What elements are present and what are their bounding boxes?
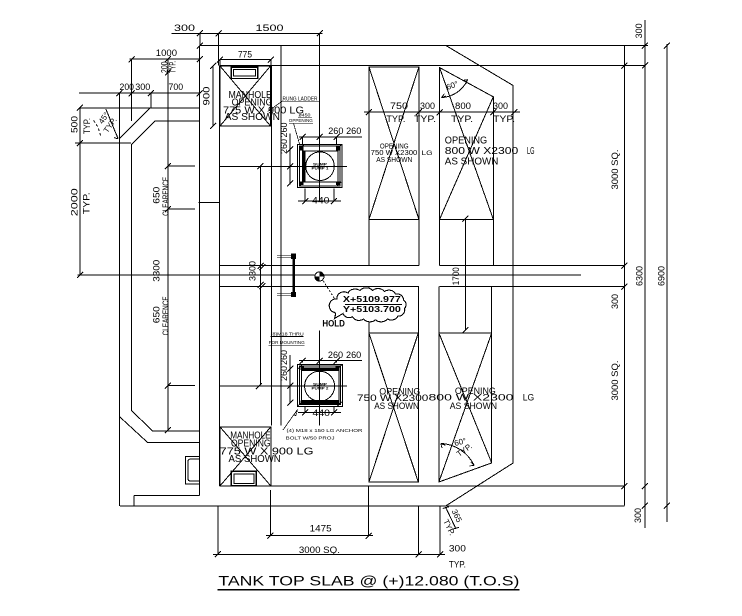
svg-text:6900: 6900 [657, 266, 668, 286]
svg-text:(8)M18 THRU: (8)M18 THRU [271, 331, 304, 336]
svg-text:3000 SQ.: 3000 SQ. [299, 545, 340, 556]
svg-text:AS SHOWN: AS SHOWN [374, 401, 419, 412]
svg-text:300: 300 [135, 82, 150, 93]
svg-text:300: 300 [174, 23, 195, 34]
svg-text:300: 300 [449, 543, 466, 554]
svg-text:1700: 1700 [451, 267, 462, 285]
svg-text:LG: LG [523, 392, 535, 403]
svg-text:300: 300 [610, 294, 621, 309]
svg-text:260: 260 [279, 139, 290, 154]
svg-text:X+5109.977: X+5109.977 [343, 295, 402, 304]
svg-text:500: 500 [69, 116, 80, 133]
svg-text:300: 300 [493, 101, 508, 112]
svg-text:700: 700 [169, 82, 184, 93]
svg-text:AS SHOWN: AS SHOWN [445, 157, 499, 168]
svg-text:HOLD: HOLD [322, 319, 345, 330]
svg-text:260: 260 [346, 350, 361, 361]
svg-text:TYP.: TYP. [81, 192, 92, 214]
svg-text:TYP.: TYP. [168, 61, 179, 73]
svg-text:3300: 3300 [152, 260, 163, 282]
svg-text:AS SHOWN: AS SHOWN [376, 157, 412, 164]
svg-text:6300: 6300 [635, 266, 646, 286]
svg-text:775: 775 [238, 49, 252, 60]
svg-text:TYP.: TYP. [414, 114, 436, 125]
svg-text:LG: LG [527, 146, 535, 157]
svg-text:260: 260 [328, 350, 343, 361]
svg-text:300: 300 [634, 23, 645, 38]
svg-text:800: 800 [455, 101, 471, 112]
svg-text:AS SHOWN: AS SHOWN [450, 401, 498, 412]
svg-text:900: 900 [202, 87, 213, 106]
svg-text:260: 260 [328, 126, 343, 137]
svg-text:TYP.: TYP. [451, 114, 473, 125]
svg-text:440: 440 [312, 195, 330, 206]
svg-text:260: 260 [279, 350, 290, 365]
svg-text:BOLT W/50 PROJ: BOLT W/50 PROJ [286, 436, 335, 441]
svg-text:PUMP 1: PUMP 1 [312, 167, 329, 171]
svg-text:Y+5103.700: Y+5103.700 [343, 305, 402, 314]
svg-text:TYP.: TYP. [493, 114, 515, 125]
svg-text:200: 200 [120, 82, 135, 93]
svg-text:750 W X2300: 750 W X2300 [371, 150, 418, 157]
svg-text:300: 300 [420, 101, 435, 112]
svg-text:260: 260 [346, 126, 361, 137]
svg-text:(4) M18 x 150 LG ANCHOR: (4) M18 x 150 LG ANCHOR [287, 428, 364, 433]
svg-text:OPENING: OPENING [445, 136, 487, 147]
svg-text:3000 SQ.: 3000 SQ. [610, 361, 621, 401]
svg-text:300: 300 [633, 508, 644, 523]
svg-text:AS SHOWN: AS SHOWN [225, 112, 280, 123]
svg-text:CLEARENCE: CLEARENCE [160, 296, 170, 335]
svg-text:PUMP 2: PUMP 2 [312, 387, 329, 391]
svg-text:1475: 1475 [310, 523, 332, 534]
svg-text:260: 260 [279, 123, 290, 138]
svg-text:440: 440 [313, 408, 331, 419]
svg-text:260: 260 [279, 366, 290, 381]
svg-text:TANK TOP SLAB @ (+)12.080 (T.O: TANK TOP SLAB @ (+)12.080 (T.O.S) [218, 574, 519, 589]
svg-text:3000 SQ.: 3000 SQ. [610, 150, 621, 190]
svg-text:LG: LG [422, 150, 433, 157]
svg-text:TYP.: TYP. [386, 114, 405, 125]
svg-text:CLEARENCE: CLEARENCE [160, 177, 170, 216]
svg-text:750: 750 [390, 101, 408, 112]
svg-text:1500: 1500 [256, 23, 284, 34]
svg-text:AS SHOWN: AS SHOWN [229, 454, 281, 465]
svg-text:TYP.: TYP. [82, 118, 93, 134]
svg-text:3300: 3300 [247, 261, 258, 281]
svg-text:1000: 1000 [156, 48, 177, 59]
svg-text:OPPENING: OPPENING [289, 118, 313, 123]
svg-text:ø450: ø450 [299, 113, 311, 118]
svg-text:TYP.: TYP. [449, 559, 466, 570]
svg-text:2000: 2000 [70, 188, 81, 216]
svg-text:FOR MOUNTING: FOR MOUNTING [269, 340, 305, 345]
